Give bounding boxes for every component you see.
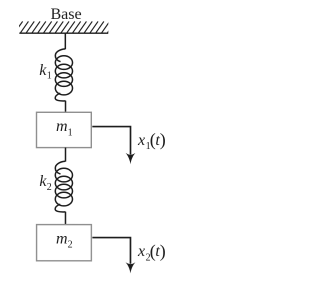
svg-text:x: x — [137, 243, 145, 260]
label x1(t) — [137, 130, 166, 152]
label m1 — [56, 118, 73, 138]
svg-text:): ) — [160, 130, 166, 151]
label Base — [50, 6, 81, 23]
svg-text:2: 2 — [47, 182, 52, 193]
spring k2 — [55, 161, 72, 212]
mass m2 — [37, 225, 92, 261]
svg-text:m: m — [56, 230, 68, 247]
base boundary line — [19, 32, 108, 34]
label k2 — [39, 173, 51, 193]
svg-text:Base: Base — [50, 6, 81, 23]
svg-text:1: 1 — [68, 127, 73, 138]
label m2 — [56, 230, 73, 250]
svg-text:m: m — [56, 118, 68, 135]
mass m1 — [36, 112, 91, 147]
displacement arrow x2 — [92, 238, 135, 274]
wire: spring k1 to mass m1 — [65, 101, 67, 113]
wire: spring k2 to mass m2 — [64, 212, 66, 225]
label k1 — [39, 62, 52, 82]
fixed base hatching — [14, 21, 115, 33]
displacement arrow x1 — [92, 127, 135, 165]
svg-text:): ) — [160, 241, 166, 262]
svg-text:x: x — [137, 132, 145, 149]
spring k1 — [55, 49, 72, 101]
label x2(t) — [137, 241, 166, 263]
svg-text:1: 1 — [47, 71, 52, 82]
svg-text:2: 2 — [68, 240, 73, 251]
wire: base to spring k1 — [64, 33, 66, 49]
wire: mass m1 to spring k2 — [64, 148, 66, 162]
